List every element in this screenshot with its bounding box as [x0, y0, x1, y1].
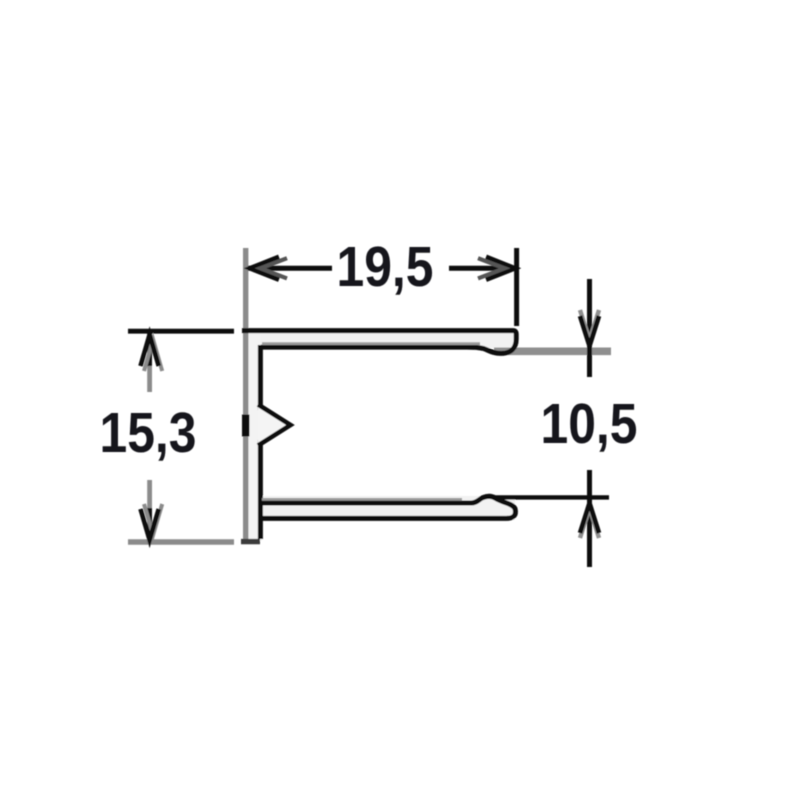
svg-text:15,3: 15,3 — [100, 401, 197, 465]
svg-text:10,5: 10,5 — [541, 392, 638, 456]
dimension 19,5 left arrowhead — [251, 257, 280, 280]
dimension 19,5 right arrowhead echo — [478, 258, 505, 278]
profile inner wall lower segment — [258, 440, 263, 539]
dimension 19,5 right arrowhead — [486, 257, 515, 280]
dimension 10,5 down arrowhead echo — [580, 310, 599, 340]
dimension 15,3 upper shaft — [147, 333, 152, 366]
dimension 19,5 left arrowhead echo — [261, 258, 288, 278]
dimension 10,5 bottom extension line — [494, 495, 609, 499]
dimension 10,5 up arrowhead echo — [580, 508, 599, 538]
profile fill (U-channel cross-section body) — [243, 329, 515, 541]
dimension 10,5 down arrowhead — [580, 316, 599, 346]
profile bottom flange inner shadow line — [262, 498, 462, 501]
profile top flange inner shadow line — [262, 342, 480, 345]
dimension 15,3 down arrowhead echo — [144, 504, 162, 535]
dimension 10,5 top arrow shaft — [587, 279, 592, 377]
notch triangle pointer on left wall — [258, 405, 291, 446]
notch mark on outer wall — [242, 415, 250, 437]
dimension 19,5 right extension line — [514, 248, 519, 326]
dimension 10,5 up arrowhead — [580, 503, 599, 533]
profile bottom flange inner edge with bead and right end — [258, 496, 515, 518]
dimension 10,5 bottom arrow shaft — [587, 470, 592, 567]
dimension 19,5 dimension line right segment — [449, 266, 514, 271]
dimension 10,5 top gray extension line — [494, 347, 611, 355]
profile wall bottom cap — [241, 539, 260, 544]
dimension 15,3 down arrowhead — [141, 509, 159, 540]
dimension 15,3 top extension line — [128, 329, 234, 334]
dimension 15,3 up arrowhead echo — [144, 340, 162, 372]
dimension 15,3 bottom extension line — [128, 539, 234, 544]
dimension 15,3 up arrowhead — [141, 335, 159, 367]
profile inner wall upper segment — [258, 345, 263, 410]
dimension 15,3 lower shaft — [147, 480, 152, 508]
profile outer wall line (also 19,5 left extension line) — [243, 248, 248, 540]
svg-text:19,5: 19,5 — [337, 235, 434, 299]
profile top flange outer edge and right hook lip — [242, 331, 516, 354]
dimension 19,5 dimension line left segment — [248, 266, 332, 271]
